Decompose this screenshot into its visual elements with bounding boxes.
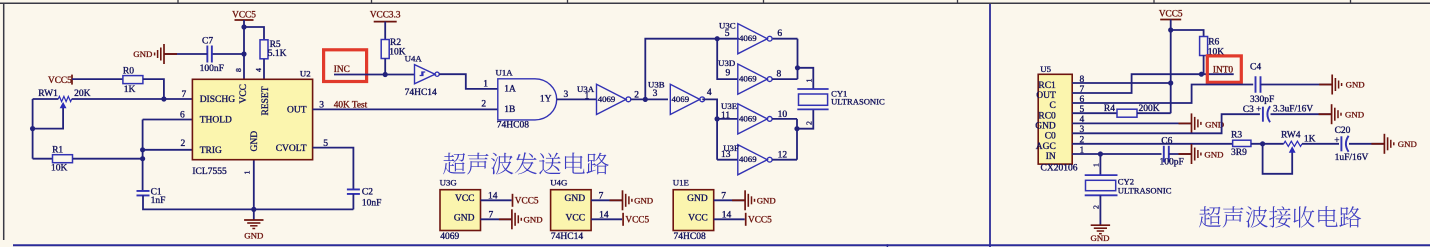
svg-text:1B: 1B bbox=[504, 105, 515, 115]
svg-text:U1A: U1A bbox=[496, 67, 514, 77]
svg-text:4069: 4069 bbox=[739, 113, 757, 123]
svg-text:C0: C0 bbox=[1045, 132, 1056, 142]
svg-text:+: + bbox=[1334, 136, 1339, 146]
ground power port (C20) bbox=[1371, 143, 1384, 145]
svg-text:GND: GND bbox=[133, 49, 152, 59]
wire VCC5 to R5 corner bbox=[244, 27, 264, 39]
highlight red box INC bbox=[324, 50, 367, 82]
wire R6 to INT0 net bbox=[1203, 55, 1205, 74]
svg-text:C3 +: C3 + bbox=[1243, 105, 1261, 115]
wire RW4 wiper loop bbox=[1263, 144, 1293, 174]
svg-text:VCC5: VCC5 bbox=[748, 216, 772, 226]
capacitor C2 bbox=[347, 188, 360, 190]
svg-text:2: 2 bbox=[481, 99, 486, 109]
node junction U3A out bbox=[643, 97, 648, 102]
sheet frame left border bbox=[3, 3, 5, 240]
wire RW4 to C20 bbox=[1302, 143, 1339, 145]
wire 40K Test net bbox=[313, 108, 498, 110]
svg-text:VCC5: VCC5 bbox=[48, 76, 72, 86]
node junction INT0 bbox=[1199, 72, 1204, 77]
power port VCC5 (U3G pin14) bbox=[512, 194, 514, 207]
svg-text:2: 2 bbox=[1092, 205, 1101, 209]
wire RW1 left down bbox=[32, 99, 34, 159]
wire R0 to DISCHG corner bbox=[143, 79, 164, 99]
capacitor C6 bbox=[1163, 146, 1165, 163]
resistor R4 bbox=[1117, 109, 1137, 117]
svg-text:13: 13 bbox=[721, 150, 731, 160]
ic U4G power block body bbox=[551, 190, 592, 231]
node junction CY2 tap bbox=[1098, 151, 1103, 156]
svg-text:GND: GND bbox=[1346, 80, 1365, 90]
wire C7 to pin8 node bbox=[212, 53, 244, 55]
svg-text:R1: R1 bbox=[52, 146, 63, 156]
svg-text:3.3uF/16V: 3.3uF/16V bbox=[1273, 105, 1313, 115]
wire to R1 bbox=[33, 158, 53, 160]
svg-text:VCC: VCC bbox=[566, 213, 586, 223]
wire VCC5 stem down to pin5 net bbox=[1170, 30, 1172, 113]
svg-text:U4A: U4A bbox=[405, 53, 423, 63]
wire R2 down bbox=[384, 59, 386, 75]
RW4 wiper arrow bbox=[1289, 146, 1296, 152]
svg-text:R2: R2 bbox=[390, 38, 401, 48]
ic U3G power block body bbox=[440, 190, 481, 231]
svg-text:GND: GND bbox=[244, 230, 263, 240]
svg-text:GND: GND bbox=[757, 195, 776, 205]
svg-text:74HC08: 74HC08 bbox=[674, 232, 706, 242]
svg-text:GND: GND bbox=[1345, 110, 1364, 120]
svg-text:GND: GND bbox=[565, 194, 586, 204]
ground power port (C6) bbox=[1179, 153, 1192, 155]
node junction U3E tap bbox=[715, 116, 720, 121]
wire C4 to GND bbox=[1261, 84, 1332, 86]
wire CY2 top bbox=[1099, 154, 1101, 175]
svg-text:VCC5: VCC5 bbox=[232, 10, 256, 20]
wire bottom rail to C2 bbox=[254, 208, 354, 210]
wire GND to C7 bbox=[165, 53, 208, 55]
power port VCC5 (U1E pin14) bbox=[745, 213, 747, 226]
svg-text:3: 3 bbox=[653, 89, 658, 99]
wire U4G top pin bbox=[591, 199, 622, 201]
wire U3F out bbox=[772, 159, 797, 161]
svg-text:GND: GND bbox=[634, 195, 653, 205]
svg-text:2: 2 bbox=[181, 139, 186, 149]
wire CVOLT to C2 bbox=[313, 148, 354, 190]
svg-text:R0: R0 bbox=[123, 67, 134, 77]
svg-text:VCC3.3: VCC3.3 bbox=[370, 10, 401, 20]
wire C2 bottom bbox=[352, 194, 354, 210]
svg-text:GND: GND bbox=[1398, 139, 1417, 149]
sheet frame zone tick bbox=[567, 0, 569, 3]
svg-text:1A: 1A bbox=[504, 85, 516, 95]
potentiometer RW4 bbox=[1284, 141, 1302, 146]
svg-text:CVOLT: CVOLT bbox=[276, 144, 307, 154]
svg-text:R4: R4 bbox=[1104, 104, 1115, 114]
node junction CY1 top branch bbox=[795, 65, 800, 70]
sheet frame zone tick bbox=[957, 0, 959, 3]
svg-text:GND: GND bbox=[1090, 233, 1109, 243]
potentiometer RW1 bbox=[58, 96, 71, 101]
wire U3B out bbox=[702, 99, 717, 159]
wire CY1 top tie bbox=[797, 39, 799, 79]
wire U3G top pin bbox=[481, 199, 512, 201]
ic U5 CX20106 body bbox=[1038, 74, 1072, 164]
svg-text:74HC14: 74HC14 bbox=[551, 232, 583, 242]
wire U5 pin5 R4 bbox=[1072, 112, 1117, 114]
inverter U3E 4069 bbox=[738, 104, 768, 134]
svg-text:DISCHG: DISCHG bbox=[200, 95, 236, 105]
title text 超声波接收电路 bbox=[1199, 206, 1221, 227]
wire to U3F in bbox=[717, 159, 738, 161]
svg-text:C2: C2 bbox=[362, 187, 373, 197]
svg-text:VCC5: VCC5 bbox=[515, 197, 539, 207]
ground power port (U4G pin7) bbox=[610, 199, 623, 201]
wire U3D out bbox=[772, 78, 797, 80]
svg-text:ULTRASONIC: ULTRASONIC bbox=[831, 97, 885, 107]
svg-text:INT0: INT0 bbox=[1213, 66, 1233, 76]
svg-text:VCC5: VCC5 bbox=[625, 216, 649, 226]
sheet frame zone tick bbox=[763, 0, 765, 3]
wire C1 bottom bbox=[143, 195, 254, 209]
ic U1E power block body bbox=[673, 190, 714, 231]
ground power port (U3G pin7) bbox=[499, 218, 512, 220]
wire U3C out bbox=[773, 38, 798, 40]
ground symbol below CY2 bbox=[1091, 224, 1110, 226]
sheet frame top border bbox=[0, 2, 1430, 4]
inverter U3D 4069 bbox=[738, 64, 768, 94]
svg-text:8: 8 bbox=[777, 70, 782, 80]
inverter U4A 74HC14 bbox=[415, 65, 436, 84]
svg-text:2: 2 bbox=[804, 121, 813, 125]
node junction CY1 bottom branch bbox=[794, 126, 799, 131]
svg-text:6: 6 bbox=[777, 29, 782, 39]
ground power port (left of C7) bbox=[164, 53, 177, 55]
wire CY2 bottom bbox=[1099, 195, 1101, 225]
capacitor C1 bbox=[137, 190, 150, 192]
node junction VCC5 stem/R6 branch bbox=[1168, 27, 1173, 32]
svg-text:1Y: 1Y bbox=[540, 94, 552, 104]
wire VCC5 to R0 bbox=[72, 78, 123, 80]
svg-text:C20: C20 bbox=[1335, 126, 1351, 136]
capacitor C7 bbox=[206, 46, 208, 63]
wire U4G bottom pin bbox=[591, 218, 622, 220]
svg-text:1: 1 bbox=[1092, 163, 1101, 167]
svg-text:4069: 4069 bbox=[598, 94, 616, 104]
svg-text:RW1: RW1 bbox=[38, 89, 58, 99]
schmitt mark U4A bbox=[420, 72, 426, 76]
svg-text:1: 1 bbox=[242, 171, 251, 175]
svg-text:10K: 10K bbox=[51, 164, 68, 174]
sheet frame zone tick bbox=[177, 0, 179, 3]
wire U5 pin3 to C3 bbox=[1072, 114, 1260, 133]
wire U1E bottom pin bbox=[714, 218, 745, 220]
wire THOLD to U2 pin 6 bbox=[143, 119, 193, 121]
inverter U3F 4069 bbox=[738, 145, 768, 175]
svg-text:100pF: 100pF bbox=[1160, 157, 1184, 167]
svg-text:RC1: RC1 bbox=[1038, 81, 1056, 91]
svg-text:C: C bbox=[1049, 101, 1055, 111]
svg-text:2: 2 bbox=[634, 91, 639, 101]
svg-text:VCC: VCC bbox=[688, 213, 708, 223]
node junction VCC5 top bbox=[241, 24, 246, 29]
capacitor C20 polarized bbox=[1340, 136, 1342, 151]
sheet section divider line bbox=[989, 4, 991, 247]
svg-text:VCC5: VCC5 bbox=[1159, 9, 1183, 19]
inverter U3C 4069 bbox=[738, 24, 768, 54]
svg-text:4: 4 bbox=[254, 68, 263, 72]
svg-text:1nF: 1nF bbox=[151, 196, 166, 206]
wire R3 to node bbox=[1251, 143, 1284, 145]
ground power port (C3) bbox=[1319, 113, 1332, 115]
svg-text:20K: 20K bbox=[74, 89, 91, 99]
wire U2 pin 8 vertical bbox=[243, 27, 245, 79]
node junction INC/R2 bbox=[383, 72, 388, 77]
svg-text:1uF/16V: 1uF/16V bbox=[1335, 153, 1369, 163]
wire riser to top rail bbox=[645, 39, 717, 100]
svg-text:AGC: AGC bbox=[1036, 142, 1056, 152]
resistor R1 bbox=[53, 155, 73, 163]
ground power port (U5 pin4) bbox=[1179, 122, 1192, 124]
svg-text:THOLD: THOLD bbox=[200, 116, 232, 126]
svg-text:OUT: OUT bbox=[1036, 91, 1056, 101]
wire branch to CY1 pin1 bbox=[798, 68, 814, 89]
svg-text:R3: R3 bbox=[1231, 131, 1242, 141]
highlight red box INT0 bbox=[1207, 56, 1241, 82]
wire C6 to GND bbox=[1169, 153, 1191, 155]
svg-text:10nF: 10nF bbox=[362, 199, 382, 209]
svg-text:100nF: 100nF bbox=[200, 64, 224, 74]
svg-text:4069: 4069 bbox=[739, 33, 757, 43]
ground power port (C4) bbox=[1319, 84, 1332, 86]
svg-text:GND: GND bbox=[1204, 150, 1223, 160]
svg-text:ULTRASONIC: ULTRASONIC bbox=[1118, 186, 1172, 196]
svg-text:5.1K: 5.1K bbox=[268, 49, 287, 59]
svg-text:C4: C4 bbox=[1250, 63, 1261, 73]
svg-text:9: 9 bbox=[726, 68, 731, 78]
power port VCC5 (U4G pin14) bbox=[622, 213, 624, 226]
resistor R5 bbox=[260, 40, 268, 59]
svg-text:C7: C7 bbox=[202, 36, 213, 46]
wire top rail to U3D bbox=[717, 39, 738, 79]
svg-text:RESET: RESET bbox=[261, 86, 271, 115]
wire to U3E in bbox=[717, 118, 738, 120]
svg-text:5: 5 bbox=[725, 29, 730, 39]
RW1 wiper arrow bbox=[60, 102, 67, 108]
wire RW1 wiper loop bbox=[33, 106, 64, 129]
capacitor C3 polarized bbox=[1262, 107, 1264, 122]
node junction R0/RW1/pin7 bbox=[161, 96, 166, 101]
wire CY1 bottom tie bbox=[796, 119, 798, 160]
svg-text:4069: 4069 bbox=[739, 154, 757, 164]
svg-text:3R9: 3R9 bbox=[1231, 148, 1247, 158]
svg-text:3: 3 bbox=[564, 90, 569, 100]
wire R1 to vertical node bbox=[73, 158, 143, 160]
svg-text:7: 7 bbox=[182, 90, 187, 100]
node junction pin8/VCC5 bbox=[1168, 80, 1173, 85]
sheet frame bottom border bbox=[13, 244, 1430, 246]
wire U3A out bbox=[631, 98, 669, 100]
wire RW1 right lead bbox=[72, 98, 164, 100]
svg-text:U2: U2 bbox=[300, 69, 311, 79]
svg-text:4069: 4069 bbox=[440, 232, 459, 242]
wire U5 pin1 to C6 bbox=[1072, 153, 1161, 155]
svg-text:GND: GND bbox=[1035, 122, 1056, 132]
sheet frame zone tick bbox=[1350, 0, 1352, 3]
wire U1E top pin bbox=[714, 199, 745, 201]
svg-text:4: 4 bbox=[707, 88, 712, 98]
svg-text:TRIG: TRIG bbox=[200, 146, 222, 156]
wire U5 pin2 to R3 bbox=[1072, 143, 1233, 145]
svg-text:330pF: 330pF bbox=[1250, 95, 1274, 105]
svg-text:VCC: VCC bbox=[239, 84, 249, 104]
wire RW1 left lead bbox=[33, 98, 59, 100]
svg-text:R6: R6 bbox=[1208, 37, 1219, 47]
svg-text:ICL7555: ICL7555 bbox=[192, 167, 227, 177]
wire R4 to VCC5 stem bbox=[1137, 112, 1171, 114]
svg-text:C6: C6 bbox=[1161, 137, 1172, 147]
svg-text:U4G: U4G bbox=[550, 177, 568, 187]
wire U5 pin7 riser bbox=[1072, 74, 1234, 93]
node junction RW1 wiper tie bbox=[30, 126, 35, 131]
wire THOLD vertical bbox=[142, 120, 144, 192]
svg-text:RW4: RW4 bbox=[1281, 130, 1301, 140]
transducer CY1 bbox=[797, 88, 828, 90]
svg-text:OUT: OUT bbox=[287, 106, 307, 116]
svg-text:1K: 1K bbox=[1304, 134, 1316, 144]
inverter U3A 4069 bbox=[597, 84, 627, 114]
svg-text:VCC: VCC bbox=[455, 194, 475, 204]
wire U5 pin4 GND bbox=[1072, 122, 1191, 124]
svg-text:GND: GND bbox=[250, 131, 260, 152]
node junction top rail split bbox=[715, 36, 720, 41]
sheet frame tick below bottom border bbox=[886, 244, 888, 247]
resistor R0 bbox=[123, 76, 143, 84]
wire U5 pin8 bbox=[1072, 82, 1171, 84]
wire U5 pin6 to C4 bbox=[1072, 85, 1253, 104]
wire U4A out to U1A pin1 bbox=[439, 74, 498, 89]
wire branch to CY1 pin2 bbox=[797, 109, 813, 128]
ic U2 ICL7555 body bbox=[192, 79, 312, 159]
svg-text:8: 8 bbox=[234, 68, 243, 72]
title text 超声波发送电路 bbox=[443, 153, 465, 175]
svg-text:IN: IN bbox=[1046, 152, 1056, 162]
svg-text:U3D: U3D bbox=[718, 58, 735, 68]
node junction C7 tap bbox=[241, 51, 246, 56]
wire U3G bottom pin bbox=[481, 218, 512, 220]
wire TRIG to U2 pin 2 bbox=[143, 149, 193, 151]
wire C20 to GND bbox=[1349, 143, 1384, 145]
svg-text:U5: U5 bbox=[1040, 64, 1051, 74]
svg-text:10K: 10K bbox=[389, 48, 406, 58]
and gate U1A 74HC08 bbox=[498, 79, 557, 120]
node junction ground rail bbox=[251, 207, 256, 212]
svg-text:4069: 4069 bbox=[739, 74, 757, 84]
wire C3 to GND bbox=[1271, 113, 1331, 115]
node junction R1/vertical bbox=[140, 156, 145, 161]
wire to U3C in bbox=[717, 38, 739, 40]
sheet frame zone tick bbox=[1153, 0, 1155, 3]
svg-text:1K: 1K bbox=[124, 85, 136, 95]
svg-text:74HC14: 74HC14 bbox=[405, 88, 437, 98]
node junction R3/RW4 bbox=[1260, 141, 1265, 146]
wire junction to U2 pin 7 bbox=[164, 98, 193, 100]
ground symbol below U2 bbox=[253, 209, 255, 219]
svg-text:RC0: RC0 bbox=[1038, 111, 1056, 121]
svg-text:CX20106: CX20106 bbox=[1041, 164, 1078, 174]
sheet frame zone tick bbox=[371, 0, 373, 3]
svg-text:6: 6 bbox=[180, 110, 185, 120]
wire R5 to U2 pin 4 bbox=[263, 59, 265, 79]
svg-text:1: 1 bbox=[483, 79, 488, 89]
wire U1A out bbox=[557, 98, 597, 100]
svg-text:1: 1 bbox=[585, 91, 590, 101]
node junction TRIG tap bbox=[140, 147, 145, 152]
inverter U3B 4069 bbox=[670, 84, 700, 114]
capacitor C4 bbox=[1255, 76, 1257, 93]
wire INC net bbox=[334, 74, 414, 76]
svg-text:74HC08: 74HC08 bbox=[497, 120, 529, 130]
wire VCC5 branch to R6 bbox=[1171, 30, 1204, 37]
resistor R2 bbox=[381, 40, 389, 59]
svg-text:11: 11 bbox=[721, 111, 730, 121]
svg-text:U1E: U1E bbox=[673, 177, 689, 187]
ground power port (U1E pin7) bbox=[732, 199, 745, 201]
svg-text:U3G: U3G bbox=[440, 177, 458, 187]
svg-text:GND: GND bbox=[687, 194, 708, 204]
svg-text:1: 1 bbox=[804, 79, 813, 83]
svg-text:GND: GND bbox=[524, 214, 543, 224]
wire U2 GND pin down bbox=[253, 160, 255, 210]
svg-text:U3E: U3E bbox=[721, 101, 737, 111]
svg-text:INC: INC bbox=[334, 65, 350, 75]
svg-text:4069: 4069 bbox=[672, 94, 690, 104]
transducer CY2 bbox=[1085, 174, 1118, 176]
wire U3E out bbox=[772, 118, 797, 120]
svg-text:GND: GND bbox=[454, 213, 475, 223]
resistor R6 bbox=[1200, 37, 1208, 56]
resistor R3 bbox=[1233, 140, 1251, 146]
